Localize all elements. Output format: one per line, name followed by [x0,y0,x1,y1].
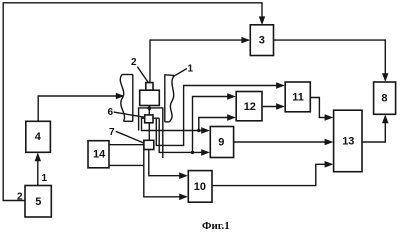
block 4 [26,121,51,152]
duct right wall straight line [164,74,166,122]
arrowhead into box13 input 1 [325,114,334,121]
wire sensor 7 bottom-right to box10 input 1 [149,150,185,176]
wire box10 right to box13 input 3 [212,164,331,185]
arrowhead into box3 top [259,16,265,25]
arrowhead up into box8 bottom [382,115,389,124]
duct left wall wavy line [120,75,124,122]
wire box5 top to box4 bottom [37,155,39,186]
arrowhead into duct left wall [116,93,125,99]
arrowhead into box12 input 1 [227,93,236,100]
wire box13 right to box8 bottom [362,117,385,142]
svg-text:10: 10 [194,181,206,193]
svg-text:3: 3 [259,35,265,47]
junction node probe top [148,106,152,110]
arrowhead into box13 input 3 [325,161,334,168]
arrowhead into box10 input 1 [179,172,188,179]
block 13 [334,110,362,172]
svg-text:14: 14 [93,149,106,161]
sensor head small rect (element 2 top) [146,83,153,91]
duct left wall top connector [122,74,133,76]
block 8 [374,82,396,114]
svg-text:1: 1 [42,173,48,184]
duct left wall straight line [132,75,134,122]
svg-text:2: 2 [17,192,23,203]
arrowhead into box11 input 1 [276,82,285,89]
junction node on box9 input 2 wire [191,151,194,154]
svg-text:6: 6 [108,107,114,118]
sensor body box (element 2) [140,90,160,105]
arrowhead into box8 top [382,73,389,82]
wire sensor 6 to sensor 7 [148,123,150,141]
svg-text:12: 12 [244,101,256,113]
arrowhead into box3 left [241,37,250,44]
duct right wall wavy line [169,75,174,122]
block 14 [88,141,109,168]
svg-text:11: 11 [292,92,304,104]
svg-text:7: 7 [109,127,115,138]
wire sensor 6 right side branch to box9 input 2 [159,118,207,152]
branch wire junction up to box12 input 2 [199,118,233,131]
wire sensor 6 right side branch to box11 input 1 [153,86,282,146]
duct right wall top connector [165,74,175,77]
wire box9 right to box13 input 2 [234,141,331,143]
svg-text:5: 5 [35,196,41,208]
block 11 [285,82,310,112]
arrowhead into box9 input 2 [201,149,210,156]
block 9 [210,127,233,158]
svg-text:13: 13 [342,135,354,147]
svg-text:Фиг.1: Фиг.1 [202,220,230,232]
block 3 [250,25,273,56]
sensor 7 square [144,140,154,149]
arrowhead into box11 input 2 [276,103,285,110]
svg-text:8: 8 [381,93,387,105]
wire sensor 2 top to box3 left [150,40,248,83]
svg-text:1: 1 [188,64,194,75]
label 7 leader line [116,131,146,143]
wire box11 right to box13 input 1 [310,98,330,118]
svg-text:4: 4 [35,131,42,143]
arrowhead into box13 input 2 [325,139,334,145]
block 5 [25,186,51,218]
wire sensor 7 bottom-left to box10 input 2 [144,150,185,197]
arrowhead into box12 input 2 [227,114,236,121]
wire box12 right to box11 input 2 [262,106,282,108]
arrowhead into box4 bottom [35,152,41,161]
arrowhead into box10 input 2 [179,194,188,201]
duct left wall bottom connector [124,120,133,122]
wire box3 right to box8 top [274,40,386,79]
wire sensor 6 left side to box9 input 1 [142,118,208,130]
label 2 leader line [137,67,148,83]
sensor 6 square [145,115,153,123]
wire box4 top to duct left wall arrow [38,96,119,121]
label 6 leader line [114,112,147,118]
block 10 [188,171,212,203]
branch wire junction up to box12 input 1 [193,97,234,153]
svg-text:2: 2 [131,57,137,68]
wire box5 output left-up-around-top to box3 top [3,3,262,201]
label 1 leader line [173,69,187,77]
junction node on box9 input 1 wire [197,129,200,132]
wire box14 output 2 joining box10 input 2 wire [109,164,144,166]
wire box2 bottom through probe top into sensor 6 [148,106,150,115]
duct right wall bottom connector [165,121,170,123]
wire box14 output 1 to sensor 7 left [109,144,144,146]
arrowhead into box9 input 1 [201,127,210,134]
svg-text:9: 9 [218,136,224,148]
block 12 [236,92,262,121]
probe frame around sensors 6 and 7 [139,108,163,158]
